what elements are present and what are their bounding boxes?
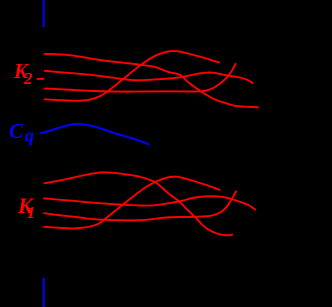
label K1 (18, 195, 35, 221)
label Cq (9, 121, 34, 144)
K1 curve 1 (45, 172, 233, 235)
K2 curve 4 (45, 51, 219, 101)
K1 curve 4 (44, 177, 220, 229)
blue axis segment top (43, 0, 45, 27)
K2 curve 3 (45, 64, 236, 92)
K2 curve 2 (45, 71, 253, 83)
Cq blue curve (41, 124, 149, 144)
red tick dash (38, 78, 44, 80)
K1 curve 3 (44, 192, 236, 221)
K1 curve 2 (44, 196, 255, 209)
label K2 (14, 61, 33, 87)
blue axis segment bottom (43, 279, 45, 307)
K2 curve 1 (45, 54, 259, 108)
